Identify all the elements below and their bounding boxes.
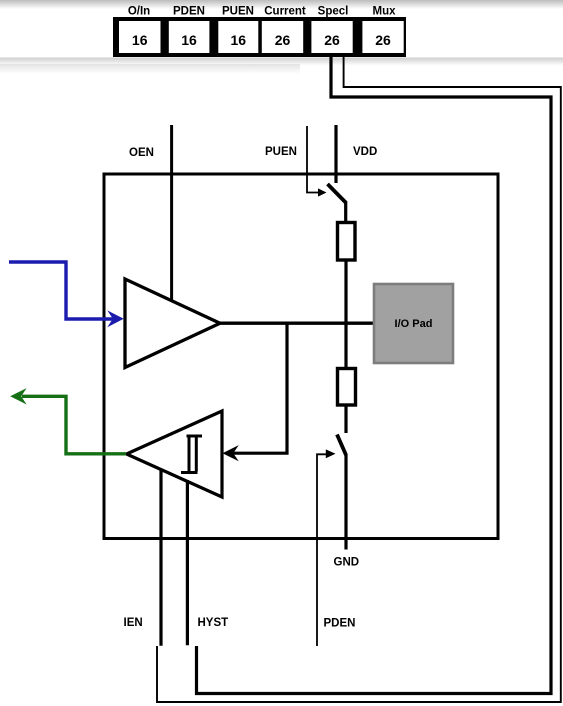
resistor R1 (pull-up) xyxy=(338,223,356,261)
svg-text:PUEN: PUEN xyxy=(265,146,297,158)
wire xyxy=(344,201,347,222)
switch S2 (pull-down enable) xyxy=(337,435,346,456)
wire VDD xyxy=(334,125,337,183)
svg-text:16: 16 xyxy=(231,32,247,48)
svg-text:26: 26 xyxy=(275,32,291,48)
switch S1 (pull-up enable) xyxy=(328,184,346,203)
svg-text:VDD: VDD xyxy=(353,146,377,158)
I/O pad xyxy=(374,284,453,363)
output buffer U1 xyxy=(125,279,220,368)
svg-text:16: 16 xyxy=(132,32,148,48)
svg-text:Mux: Mux xyxy=(373,6,397,18)
wire PUEN control with arrow xyxy=(307,126,327,197)
wire to ground xyxy=(344,454,347,550)
configuration table xyxy=(113,17,406,57)
wire: buffer output to I/O pad xyxy=(219,322,374,325)
svg-text:Current: Current xyxy=(264,6,306,18)
svg-text:16: 16 xyxy=(181,32,197,48)
svg-text:GND: GND xyxy=(334,557,360,569)
svg-text:PUEN: PUEN xyxy=(222,6,254,18)
wire OEN xyxy=(170,125,173,301)
svg-text:OEN: OEN xyxy=(129,147,154,159)
wire HYST xyxy=(186,480,189,645)
hysteresis symbol xyxy=(181,435,202,474)
svg-text:IEN: IEN xyxy=(124,617,143,629)
resistor R2 (pull-down) xyxy=(338,369,356,406)
wire: Specl bus thin (to IEN) xyxy=(157,57,561,702)
table column headers xyxy=(128,6,396,18)
wire: pad node to input buffer with arrow xyxy=(223,323,288,461)
svg-text:Specl: Specl xyxy=(318,6,349,18)
wire IEN xyxy=(159,469,162,646)
svg-text:26: 26 xyxy=(375,32,391,48)
svg-text:I/O Pad: I/O Pad xyxy=(395,318,433,330)
wire PDEN control with arrow xyxy=(317,449,336,646)
input buffer U2 xyxy=(127,411,223,497)
table cell values xyxy=(132,32,391,48)
svg-text:HYST: HYST xyxy=(198,617,229,629)
svg-text:PDEN: PDEN xyxy=(173,6,205,18)
I/O cell boundary box xyxy=(104,174,498,539)
svg-text:PDEN: PDEN xyxy=(324,618,356,630)
svg-text:26: 26 xyxy=(324,32,340,48)
green output signal arrow xyxy=(10,388,126,454)
svg-text:O/In: O/In xyxy=(128,6,150,18)
wire xyxy=(344,405,347,433)
wire: resistor R1 to resistor R2 through pad node xyxy=(344,261,347,368)
blue input signal arrow xyxy=(9,262,124,327)
wire: Specl bus thick (to HYST) xyxy=(197,57,552,694)
